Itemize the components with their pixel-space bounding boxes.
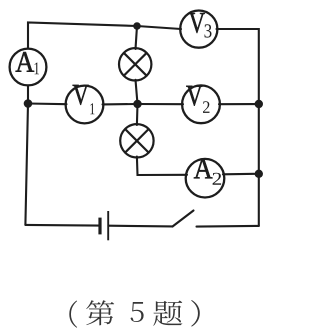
label A2 letter: [194, 159, 213, 179]
label A2 subscript: [213, 173, 221, 185]
wire switch right to bottom-right corner: [197, 225, 259, 228]
lamp L1: [119, 48, 151, 80]
label V2 letter: [186, 86, 202, 106]
wire from A1 top up and across to V3: [28, 23, 181, 49]
wire bottom left to battery: [25, 224, 98, 227]
junction node left below A1: [24, 99, 33, 108]
caption glyph open paren: [69, 300, 77, 327]
battery negative plate short thick: [98, 218, 101, 235]
junction node right V2 row: [255, 100, 263, 108]
caption glyph digit 5: [131, 302, 144, 322]
caption glyph hanzi ti (题): [153, 301, 182, 326]
wire battery to switch pivot: [109, 225, 173, 228]
wire lamp L1 to middle node: [136, 80, 138, 104]
voltmeter V3 circle: [180, 11, 217, 48]
label V3 letter: [189, 13, 205, 33]
ammeter A1 circle: [10, 49, 47, 86]
wire lamp L2 down and right to A2: [137, 157, 187, 175]
label A1 letter: [16, 52, 35, 72]
junction node middle: [133, 100, 141, 108]
junction node right A2 row: [255, 170, 263, 178]
voltmeter V2 circle: [182, 85, 220, 123]
wire left node to V1: [28, 102, 67, 105]
wire V1 to middle node: [103, 103, 138, 106]
label V1 subscript: [90, 103, 94, 114]
wire V3 right and right rail down: [217, 29, 259, 226]
label A1 subscript: [35, 62, 39, 74]
battery positive plate long thin: [107, 211, 109, 240]
caption glyph hanzi di (第): [86, 300, 114, 325]
switch S blade: [173, 211, 194, 227]
voltmeter V1 circle: [66, 86, 104, 124]
junction node top tap: [133, 22, 141, 30]
wire left rail down: [25, 104, 28, 225]
caption glyph close paren: [191, 300, 200, 327]
wire middle node to V2: [138, 103, 184, 105]
lamp L2: [120, 124, 153, 157]
wire middle node to lamp L2: [136, 104, 139, 125]
label V3 subscript: [205, 24, 212, 37]
label V1 letter: [73, 85, 89, 105]
ammeter A2 circle: [186, 159, 225, 198]
wire top node down to lamp L1: [136, 26, 138, 49]
wire V2 to right node: [219, 103, 259, 105]
label V2 subscript: [203, 101, 209, 113]
wire A1 bottom to left node: [27, 85, 29, 103]
wire A2 right to right node: [223, 173, 259, 176]
